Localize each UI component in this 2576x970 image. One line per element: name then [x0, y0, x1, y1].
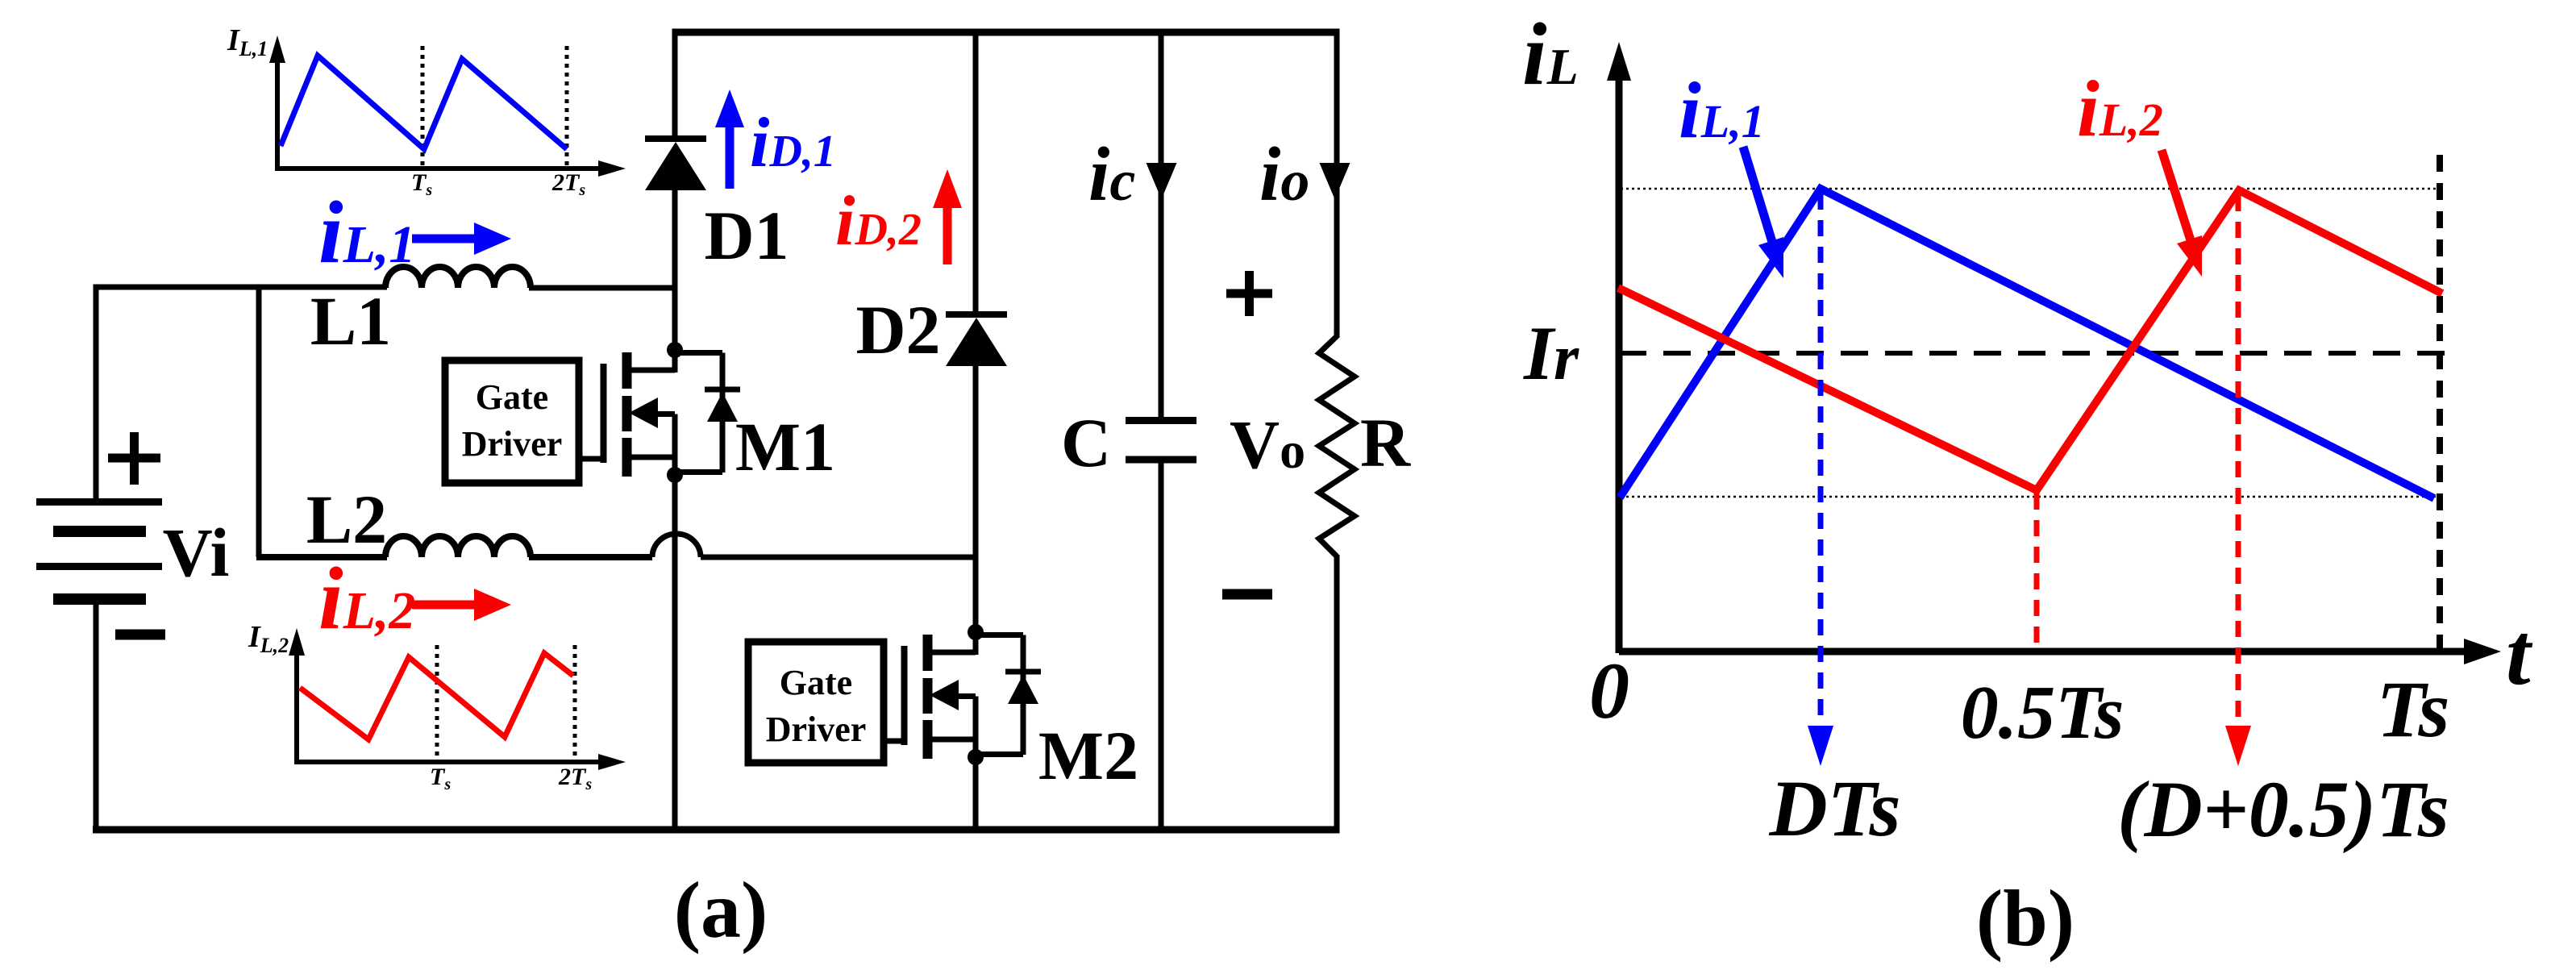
svg-text:(D+0.5)Ts: (D+0.5)Ts	[2117, 764, 2449, 854]
gate driver 1 box	[445, 360, 579, 483]
svg-text:M2: M2	[1038, 717, 1138, 794]
svg-text:Driver: Driver	[462, 424, 563, 464]
svg-text:Gate: Gate	[476, 377, 548, 417]
inset IL2 dotted line 2Ts	[573, 645, 577, 760]
svg-text:C: C	[1061, 404, 1111, 481]
svg-text:DTs: DTs	[1768, 764, 1900, 853]
wire resistor R to bottom rail	[1334, 555, 1340, 830]
wire D1 anode to M1 drain	[672, 190, 678, 353]
wire gate driver 2 to M2 gate	[884, 739, 904, 744]
wire M1 source to bottom rail	[672, 475, 678, 830]
inset IL1 x-axis	[275, 166, 601, 171]
current arrow iD,2	[933, 169, 962, 264]
dotted lower envelope line	[1621, 496, 2441, 498]
transistor M2	[905, 624, 1042, 765]
diode D2	[946, 311, 1007, 366]
current arrow ic	[1147, 163, 1177, 199]
wire input branch vertical	[256, 285, 262, 558]
wire battery bottom to bottom rail	[94, 600, 99, 830]
svg-text:Vi: Vi	[163, 514, 230, 591]
inset IL2 waveform	[300, 653, 573, 739]
chart y-axis	[1616, 74, 1623, 653]
label minus output	[1222, 589, 1272, 600]
inset IL1 dotted line Ts	[421, 46, 425, 166]
svg-text:M1: M1	[735, 408, 835, 485]
current arrow iL,2	[412, 589, 511, 621]
wire top rail to D2 cathode	[973, 31, 979, 314]
battery minus terminal	[115, 630, 165, 640]
svg-text:D2: D2	[855, 291, 940, 368]
svg-text:L1: L1	[310, 282, 391, 360]
dashed marker Ts black	[2437, 155, 2443, 648]
inset IL1 waveform	[281, 56, 567, 149]
current arrow io	[1320, 163, 1350, 199]
diode D1	[645, 135, 706, 190]
current arrow iL,1	[412, 223, 511, 255]
dashed marker (D+0.5)Ts red	[2236, 195, 2241, 724]
waveform iL2 red	[1618, 190, 2442, 490]
svg-text:R: R	[1360, 404, 1411, 481]
inset IL2 y-axis	[294, 651, 299, 762]
transistor M1	[604, 342, 741, 483]
top rail wire	[672, 29, 1340, 36]
wire top rail to D1 cathode	[672, 31, 678, 139]
wire battery top to input line	[94, 287, 388, 502]
battery Vi	[36, 498, 162, 605]
svg-text:(a): (a)	[674, 865, 768, 955]
wire L1 to node A column	[529, 285, 672, 291]
inductor L2	[256, 536, 652, 557]
wire gate driver 1 to M1 gate	[579, 456, 603, 462]
inset IL2 x-axis	[294, 760, 601, 764]
svg-text:D1: D1	[704, 197, 789, 274]
wire hop over M1 column	[652, 534, 701, 557]
svg-text:Gate: Gate	[780, 663, 852, 702]
wire top rail to capacitor C	[1159, 31, 1164, 421]
inset IL1 dotted line 2Ts	[565, 46, 569, 166]
wire L2 to node B column	[701, 555, 976, 560]
svg-text:Ts: Ts	[2377, 664, 2450, 754]
current arrow iD,1	[715, 90, 744, 189]
dashed Ir reference line	[1619, 351, 2453, 356]
wire top rail to resistor R	[1334, 31, 1340, 338]
wire M2 source to bottom rail	[973, 757, 979, 830]
dotted upper envelope line	[1621, 188, 2441, 190]
svg-text:t: t	[2506, 605, 2533, 703]
inset IL1 y-axis	[275, 58, 280, 169]
gate driver 2 box	[748, 642, 884, 763]
svg-text:0.5Ts: 0.5Ts	[1961, 671, 2124, 755]
label plus output	[1226, 271, 1272, 316]
dashed marker 0.5Ts red	[2034, 493, 2040, 648]
chart x-axis	[1619, 648, 2466, 656]
capacitor C	[1126, 421, 1196, 460]
wire D2 anode to M2 drain	[973, 366, 979, 635]
bottom rail wire	[93, 826, 1340, 834]
svg-text:Driver: Driver	[766, 710, 867, 749]
waveform iL1 blue	[1620, 189, 2434, 498]
battery plus terminal	[108, 432, 160, 485]
inset IL2 dotted line Ts	[435, 645, 439, 760]
wire capacitor C to bottom rail	[1159, 460, 1164, 830]
svg-text:0: 0	[1589, 646, 1629, 735]
resistor R	[1319, 336, 1355, 556]
svg-text:(b): (b)	[1976, 873, 2075, 963]
svg-text:Ir: Ir	[1523, 310, 1579, 396]
svg-text:L2: L2	[306, 481, 387, 558]
dashed marker DTs blue	[1818, 194, 1824, 724]
inductor L1	[385, 267, 531, 288]
